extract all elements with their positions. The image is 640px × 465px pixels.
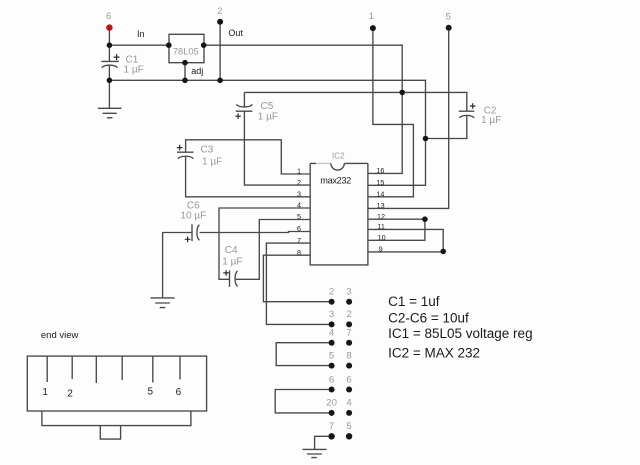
svg-text:C4: C4 (225, 245, 238, 256)
svg-text:20: 20 (326, 398, 337, 409)
svg-text:4: 4 (346, 398, 352, 409)
svg-text:12: 12 (377, 212, 385, 221)
svg-text:6: 6 (176, 387, 182, 398)
svg-text:1: 1 (297, 167, 301, 176)
svg-text:end view: end view (41, 330, 79, 341)
svg-text:5: 5 (297, 212, 301, 221)
svg-text:10 µF: 10 µF (180, 211, 206, 222)
svg-text:4: 4 (329, 328, 335, 339)
svg-text:IC1 = 85L05 voltage reg: IC1 = 85L05 voltage reg (388, 326, 532, 341)
svg-text:7: 7 (346, 328, 351, 339)
svg-text:2: 2 (346, 309, 351, 320)
svg-text:1: 1 (42, 387, 48, 398)
svg-text:5: 5 (148, 387, 154, 398)
svg-text:In: In (137, 29, 145, 39)
svg-text:14: 14 (376, 190, 384, 199)
svg-text:IC2 = MAX 232: IC2 = MAX 232 (388, 345, 480, 360)
svg-text:IC2: IC2 (332, 151, 345, 160)
svg-text:C5: C5 (261, 101, 274, 112)
svg-text:1: 1 (369, 11, 374, 22)
svg-text:1 µF: 1 µF (258, 112, 278, 123)
svg-text:5: 5 (346, 421, 351, 432)
svg-text:1 µF: 1 µF (481, 115, 501, 126)
svg-text:1 µF: 1 µF (222, 257, 242, 268)
svg-text:9: 9 (379, 245, 383, 254)
svg-text:6: 6 (106, 11, 111, 22)
svg-text:3: 3 (297, 190, 301, 199)
svg-text:78L05: 78L05 (173, 46, 199, 56)
svg-text:max232: max232 (320, 175, 351, 185)
svg-text:C2-C6 = 10uf: C2-C6 = 10uf (388, 310, 469, 325)
svg-text:6: 6 (346, 374, 351, 385)
svg-text:4: 4 (297, 201, 301, 210)
svg-text:2: 2 (297, 178, 301, 187)
svg-text:11: 11 (377, 222, 384, 231)
svg-text:1 µF: 1 µF (124, 64, 144, 75)
svg-text:13: 13 (377, 201, 385, 210)
svg-text:7: 7 (297, 236, 301, 245)
svg-text:2: 2 (217, 6, 222, 17)
svg-text:C1 = 1uf: C1 = 1uf (388, 294, 440, 309)
svg-text:16: 16 (376, 166, 384, 175)
svg-text:6: 6 (329, 374, 334, 385)
svg-text:2: 2 (67, 389, 73, 400)
svg-text:1 µF: 1 µF (202, 157, 222, 168)
svg-text:6: 6 (297, 224, 301, 233)
svg-text:2: 2 (329, 287, 334, 298)
svg-text:15: 15 (376, 178, 384, 187)
svg-text:3: 3 (329, 309, 334, 320)
svg-text:8: 8 (346, 350, 351, 361)
svg-text:7: 7 (329, 421, 334, 432)
svg-text:10: 10 (378, 233, 386, 242)
svg-text:8: 8 (297, 248, 301, 257)
svg-text:5: 5 (446, 12, 451, 23)
svg-text:adj: adj (191, 66, 203, 76)
svg-text:3: 3 (346, 287, 351, 298)
svg-text:5: 5 (329, 350, 334, 361)
svg-text:C3: C3 (201, 145, 214, 156)
svg-text:Out: Out (228, 28, 243, 38)
